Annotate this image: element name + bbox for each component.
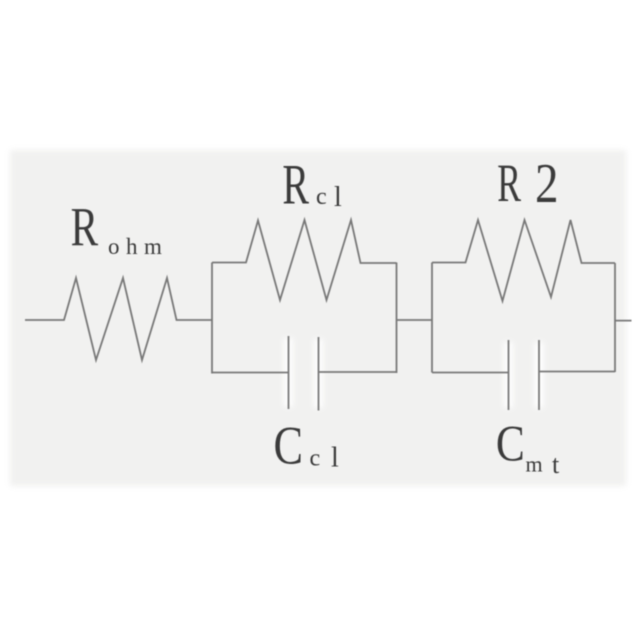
svg-text:R: R bbox=[497, 153, 521, 213]
svg-text:l: l bbox=[331, 443, 339, 474]
svg-text:c: c bbox=[316, 184, 327, 210]
svg-text:c: c bbox=[310, 446, 321, 472]
svg-text:R: R bbox=[71, 197, 99, 258]
svg-text:l: l bbox=[334, 182, 342, 213]
svg-text:t: t bbox=[552, 450, 560, 479]
svg-text:C: C bbox=[496, 416, 525, 472]
svg-text:m: m bbox=[526, 452, 543, 477]
svg-text:ohm: ohm bbox=[108, 234, 168, 259]
svg-text:2: 2 bbox=[535, 153, 559, 215]
svg-text:C: C bbox=[274, 415, 304, 475]
svg-text:R: R bbox=[282, 153, 309, 217]
